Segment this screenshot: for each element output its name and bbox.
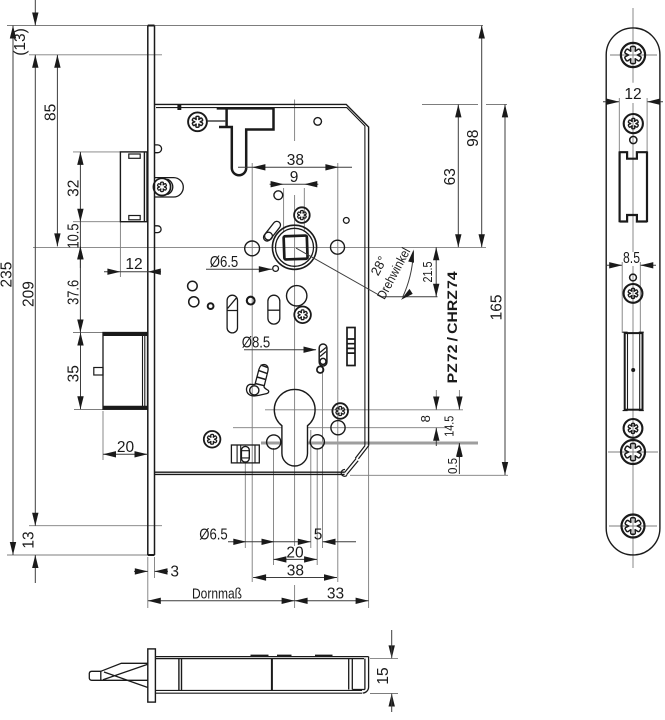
svg-text:12: 12 (624, 86, 641, 103)
svg-text:38: 38 (287, 562, 304, 579)
dim 235 line (12, 26, 14, 556)
svg-text:98: 98 (465, 130, 482, 147)
torx screw lower left (204, 431, 221, 448)
arrow 20 left (103, 451, 116, 457)
side divider 1 (179, 659, 182, 691)
arrow 5 right (298, 539, 311, 545)
arrow 14.5 down (456, 397, 462, 410)
wire deadbolt 20 ext (102, 411, 104, 460)
svg-text:63: 63 (442, 168, 459, 185)
side divider 3 double (349, 659, 353, 690)
faceplate front view (148, 26, 155, 556)
plate centerline (632, 8, 634, 568)
arrow 38b left (253, 574, 266, 580)
svg-text:8.5: 8.5 (623, 250, 640, 267)
faceplate guide bump (155, 145, 162, 153)
plate outline (606, 28, 660, 555)
dim 8.5 plate (607, 264, 656, 266)
wire side view 15 ext (370, 658, 398, 693)
svg-text:35: 35 (66, 365, 83, 382)
arrow 0.5 up (456, 446, 462, 457)
case top step tab (177, 105, 181, 110)
dim 20 bottom line (273, 558, 317, 560)
arrow 33 right (356, 598, 369, 604)
arrow 32 down (77, 209, 83, 222)
arrow dornmass right (282, 598, 295, 604)
wire faceplate bottom ext (7, 554, 148, 556)
wire dornmass ext right (368, 446, 370, 608)
wire dornmass ext left (147, 557, 149, 608)
dim 38 bottom line (253, 577, 337, 579)
dim 15 line (391, 630, 393, 712)
arrow 38b right (324, 574, 337, 580)
small pin thick ring (208, 303, 214, 309)
side divider 2 (271, 659, 273, 691)
wire spindle center line (33, 246, 486, 248)
svg-text:8: 8 (418, 415, 433, 422)
arrow 8 up (433, 428, 439, 441)
arrow 20b left (273, 556, 286, 562)
arrow 10.5 up (77, 246, 83, 259)
hole pair upper left (188, 281, 198, 291)
thick gray lever line y=443 (261, 442, 478, 445)
dim (13)+209 line (34, 0, 36, 583)
faceplate guide bump 2 (155, 226, 162, 233)
arrow 8 down (433, 397, 439, 410)
arrow 15 up (389, 694, 395, 707)
side faceplate bar (148, 649, 156, 702)
plate screw 4 (624, 419, 643, 438)
svg-text:Ø6.5: Ø6.5 (199, 527, 228, 544)
dim 3 line (134, 570, 168, 572)
pin thick ring right (247, 297, 255, 305)
arrow lead65 (259, 266, 272, 272)
svg-text:37.6: 37.6 (66, 280, 83, 305)
arrow 21.5 up (433, 247, 439, 260)
follower rings (272, 225, 316, 269)
dim 37.6/35 line (79, 246, 81, 409)
svg-text:10.5: 10.5 (66, 224, 83, 249)
extension and center lines (gray) (7, 26, 508, 694)
dim 63 line (457, 104, 459, 247)
deadbolt front view (94, 333, 148, 410)
svg-text:20: 20 (286, 544, 304, 561)
wire 5-dim ext right (322, 368, 324, 548)
arrow 63 down (455, 234, 461, 247)
fixing bracket bottom left (231, 445, 259, 463)
svg-text:235: 235 (0, 262, 16, 288)
arrow 3 right (135, 568, 148, 574)
arrow 63 up (455, 104, 461, 117)
wire bottom screw line (29, 525, 162, 527)
arrow dornmass left (148, 598, 161, 604)
wire hole line y=427.7 (233, 427, 447, 429)
lock case outline (155, 104, 369, 476)
wire 12-dim ext (119, 222, 121, 277)
svg-text:209: 209 (21, 281, 38, 307)
arrow 37.6 up (77, 246, 83, 259)
side latch head (89, 663, 148, 687)
wire latch top ext (73, 151, 121, 153)
svg-text:85: 85 (43, 104, 60, 121)
hole 20 right (310, 435, 324, 449)
plate screw 5 big (621, 440, 645, 464)
dim 12 plate (603, 101, 663, 103)
wire top reference line y=25.5 (7, 25, 483, 27)
plate screw 2 (624, 114, 643, 133)
wire capsule pin ext (244, 462, 246, 548)
plate deadbolt cutout (623, 332, 644, 410)
leader Ø6.5 top (206, 268, 272, 270)
leader Ø8.5 (244, 349, 316, 351)
arrow 85 up (54, 55, 60, 68)
arrow 9 left (304, 181, 317, 187)
arrow lead85 (304, 347, 317, 353)
plate screw crosshair lines (608, 55, 658, 526)
lever pivot circle (250, 386, 259, 395)
striped spring bar (347, 328, 355, 366)
dim 38 top line (238, 166, 352, 168)
dim 21.5 line (435, 247, 437, 296)
drehwinkel arc (403, 251, 414, 297)
dim 32/10.5 line (79, 152, 81, 268)
lever arm (247, 364, 269, 395)
side case body (155, 657, 368, 694)
plate pin hole 2 (630, 274, 637, 281)
torx screw above follower (294, 207, 310, 223)
arrow 13 up (32, 555, 38, 568)
arrow arc bottom (401, 289, 413, 300)
wire 3-dim ext right (154, 557, 156, 578)
arrow 20 right (135, 451, 148, 457)
arrow 98 down (479, 234, 485, 247)
svg-text:15: 15 (375, 667, 392, 684)
arrow 98 up (479, 26, 485, 39)
wire 38-dim ext left (251, 163, 253, 582)
wire 9-dim ext (284, 188, 305, 232)
svg-text:Ø8.5: Ø8.5 (242, 335, 271, 352)
arrow 235 up (10, 26, 16, 39)
wire case top ext right (422, 104, 507, 106)
dim Ø6.5/5 bottom line (228, 541, 356, 543)
screw-to-slot link (208, 120, 226, 122)
torx screw below follower (294, 307, 311, 324)
arrow lead65b-2 (262, 539, 275, 545)
wire 20-dim ext left (273, 448, 275, 565)
pin at leader tip (273, 266, 279, 272)
follower square (284, 236, 308, 260)
wire 38-dim ext right (337, 163, 339, 582)
plate latch cutout (620, 151, 647, 222)
hole left of follower (245, 241, 260, 256)
plate screw 3 (624, 284, 643, 303)
wire vertical center main (294, 100, 296, 609)
side top tabs (251, 654, 333, 656)
dim dornmass line (148, 600, 369, 602)
arrow 38t right (325, 164, 338, 170)
svg-text:PZ 72 / CHRZ 74: PZ 72 / CHRZ 74 (444, 271, 460, 383)
hole right of follower (331, 240, 345, 254)
tiny hole right of follower (343, 218, 349, 224)
svg-text:0.5: 0.5 (445, 458, 460, 474)
drehwinkel diagonal (296, 248, 438, 297)
svg-text:13: 13 (21, 531, 38, 548)
dim 14.5 line (458, 406, 460, 458)
wire 20-dim ext right (316, 448, 318, 565)
wire latch bottom ext (73, 221, 121, 223)
arrow 21.5 down (433, 284, 439, 297)
plate pin hole (630, 136, 637, 143)
arrow 15 down (389, 645, 395, 658)
dim 85 line (56, 55, 58, 247)
svg-text:3: 3 (170, 564, 179, 581)
svg-text:Dornmaß: Dornmaß (192, 585, 242, 602)
arrow 20b right (304, 556, 317, 562)
plate bottom screw (622, 515, 645, 538)
arrow 235 down (10, 542, 16, 555)
svg-text:(13): (13) (12, 28, 29, 56)
svg-text:21.5: 21.5 (420, 262, 435, 283)
svg-text:14.5: 14.5 (442, 416, 457, 437)
slot with chamfer mark (227, 295, 237, 333)
wire deadbolt top ext (73, 332, 104, 334)
arrow 3 left (155, 568, 168, 574)
arrow 9 right (271, 181, 284, 187)
arrow 165 down (502, 462, 508, 475)
hole above follower (274, 191, 283, 200)
dim 8 arrows line (435, 406, 437, 446)
arrow 33 left (295, 598, 308, 604)
hole top right (314, 118, 322, 126)
svg-text:20: 20 (117, 439, 135, 456)
T-slot cutout (thick) (217, 108, 274, 175)
dim 20 deadbolt line (103, 453, 148, 455)
wire 5-dim ext left (310, 430, 312, 548)
arrow arc top (408, 250, 414, 263)
hole 20 left (267, 435, 281, 449)
wire cylinder line left (74, 409, 103, 411)
arrow 38t left (252, 164, 265, 170)
dim 165 line (504, 104, 506, 475)
torx screw top left (188, 112, 207, 131)
svg-text:9: 9 (290, 169, 299, 186)
svg-text:Ø6.5: Ø6.5 (210, 254, 239, 271)
dim 0.5 line (458, 445, 460, 475)
dim 98 line (481, 26, 483, 248)
arrow 12 right (107, 269, 120, 275)
arrow 209 down (32, 513, 38, 526)
wire top screw line y=54.8 (29, 54, 162, 56)
svg-text:38: 38 (287, 152, 304, 169)
latch bolt front view (120, 152, 147, 222)
faceplate pill with screw (155, 178, 184, 197)
arrow 35 down (77, 396, 83, 409)
svg-text:33: 33 (327, 585, 344, 602)
small hole below P-slot (317, 366, 324, 373)
hole above cylinder (287, 286, 307, 306)
dim 9 line (270, 183, 319, 185)
wire cylinder center line (265, 409, 463, 411)
arrow 12 left (148, 269, 161, 275)
wire 8/14.5 ext verticals (436, 390, 459, 406)
dim 12 line (104, 271, 161, 273)
small circle at slot end (265, 232, 273, 240)
plain slot (268, 295, 280, 324)
plate top screw (621, 43, 645, 67)
torx screw on faceplate pill (153, 178, 170, 195)
hole 8 below (331, 421, 345, 435)
arrow 85 down (54, 233, 60, 246)
wire case bottom ext right (350, 474, 508, 476)
pill inner rim arc (167, 179, 173, 194)
torx screw right of cylinder (332, 403, 348, 419)
cylinder profile hole (274, 389, 315, 466)
arrow 165 up (502, 104, 508, 117)
P-slot (319, 344, 327, 366)
svg-text:32: 32 (66, 180, 83, 197)
arrow 209 up (32, 55, 38, 68)
tilted slot near follower (262, 220, 282, 243)
arrow 32 up (77, 152, 83, 165)
svg-text:5: 5 (314, 527, 323, 544)
arrow 37.6 down (77, 320, 83, 333)
arrow lead65b-1 (233, 539, 246, 545)
arrow 5 left (323, 539, 336, 545)
arrow (13) down (32, 13, 38, 26)
svg-text:12: 12 (125, 256, 142, 273)
arrow 35 up (77, 333, 83, 346)
arrow 14.5 up (456, 443, 462, 456)
svg-text:165: 165 (489, 294, 506, 320)
